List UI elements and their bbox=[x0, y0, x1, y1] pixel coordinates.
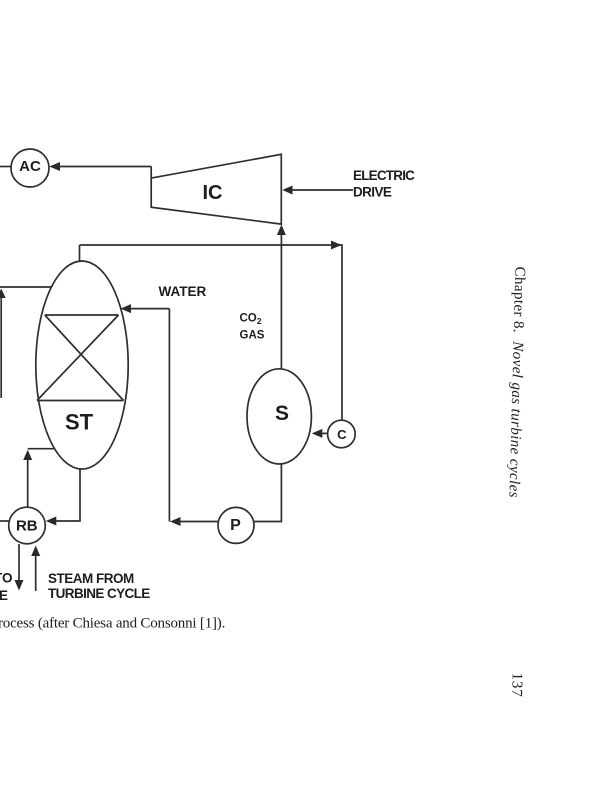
svg-text:GAS: GAS bbox=[240, 330, 265, 342]
svg-text:Chapter 8. Novel gas turbine: Chapter 8. Novel gas turbine cycles bbox=[505, 266, 527, 497]
svg-text:P: P bbox=[230, 517, 241, 534]
label STEAM FROM TURBINE CYCLE bbox=[48, 571, 150, 601]
motor/generator AC bbox=[11, 149, 49, 187]
svg-text:LE: LE bbox=[0, 588, 8, 603]
wire RB bottom outlet (arrow down) bbox=[15, 544, 24, 591]
label CO2 GAS bbox=[240, 312, 265, 341]
svg-text:ELECTRIC: ELECTRIC bbox=[353, 168, 415, 183]
svg-text:RB: RB bbox=[16, 518, 38, 535]
wire S bottom down then left into P bbox=[254, 464, 281, 522]
caption figure (cut at page edge) bbox=[0, 616, 225, 632]
recovery boiler RB bbox=[9, 507, 46, 544]
wire ST bottom down then left into RB (arrow left) bbox=[46, 469, 80, 526]
page number 137 (rotated) bbox=[508, 672, 525, 697]
label RB bbox=[16, 518, 38, 535]
pump P bbox=[218, 507, 254, 543]
ST internal diagonal 1 bbox=[45, 315, 124, 401]
svg-text:WATER: WATER bbox=[159, 284, 207, 299]
wire C to S (arrow left) bbox=[312, 429, 328, 438]
separator vessel S (ellipse) bbox=[247, 369, 311, 464]
svg-text:C: C bbox=[337, 427, 347, 442]
wire IC to AC with left arrowhead bbox=[49, 162, 151, 178]
label P bbox=[230, 517, 241, 534]
wire RB top up to ST lower-left (arrow up at corner) bbox=[23, 449, 55, 508]
svg-text:TURBINE CYCLE: TURBINE CYCLE bbox=[48, 586, 150, 601]
wire stub left of RB bbox=[0, 520, 9, 522]
svg-text:S: S bbox=[275, 402, 289, 425]
wire P to riser corner (arrow left) bbox=[170, 517, 218, 526]
wire CO2 gas riser from S up into IC (arrow up) bbox=[277, 225, 286, 370]
svg-text:rocess (after Chiesa and Conso: rocess (after Chiesa and Consonni [1]). bbox=[0, 616, 225, 632]
ST internal diagonal 2 bbox=[37, 315, 119, 401]
label ST bbox=[65, 410, 94, 435]
label WATER bbox=[159, 284, 207, 299]
svg-text:137: 137 bbox=[508, 672, 525, 697]
svg-text:IC: IC bbox=[203, 182, 223, 204]
label ELECTRIC DRIVE bbox=[353, 168, 415, 200]
heat exchanger vessel ST (ellipse) bbox=[36, 261, 128, 469]
svg-text:AC: AC bbox=[19, 158, 41, 175]
label E (cut at page edge) bbox=[0, 588, 8, 603]
label TO (cut at page edge) bbox=[0, 571, 13, 586]
ST internal bottom chord bbox=[37, 400, 124, 402]
wire left-edge vertical with up arrowhead bbox=[0, 289, 6, 399]
svg-text:ST: ST bbox=[65, 410, 94, 435]
svg-text:DRIVE: DRIVE bbox=[353, 185, 392, 200]
wire stub left of AC bbox=[0, 166, 12, 168]
wire inlet into ST left bbox=[0, 286, 52, 288]
compressor C bbox=[328, 420, 356, 448]
label IC bbox=[203, 182, 223, 204]
wire steam inlet into RB (arrow up) bbox=[31, 546, 40, 592]
wire electric drive arrow into IC bbox=[282, 186, 353, 195]
label AC bbox=[19, 158, 41, 175]
ST internal top chord bbox=[45, 314, 119, 316]
wire WATER arrow into ST (from P riser) bbox=[121, 304, 170, 521]
wire long horizontal from ST top to right corner (arrow right) then down to C bbox=[80, 241, 343, 421]
margin running head: Chapter 8. Novel gas turbine cycles (rotated) bbox=[505, 266, 527, 497]
label C bbox=[337, 427, 347, 442]
label S bbox=[275, 402, 289, 425]
wire stub ST top bbox=[79, 245, 81, 262]
compressor IC (trapezoid) bbox=[151, 154, 281, 224]
svg-text:CO2: CO2 bbox=[240, 312, 262, 326]
svg-text:STEAM FROM: STEAM FROM bbox=[48, 571, 134, 586]
svg-text:TO: TO bbox=[0, 571, 13, 586]
